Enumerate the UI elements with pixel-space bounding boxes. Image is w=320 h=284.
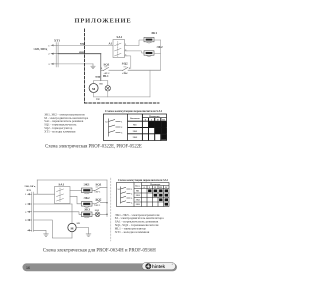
switch diagram in table [109, 119, 121, 137]
enclosure dashed boundary (left vertical) [84, 29, 86, 103]
switch SA1 pin 2 [125, 50, 128, 52]
wire motor drop [71, 204, 73, 223]
svg-text:2: 2 [121, 127, 122, 129]
svg-text:t 95°C: t 95°C [122, 72, 128, 75]
wire EK2 to right bus [154, 52, 161, 54]
closed-contact marks row2 [155, 128, 167, 134]
svg-text:ЭК1: ЭК1 [133, 130, 138, 133]
switch SA1 pin 3 [125, 55, 128, 57]
wire right drop to bottom [149, 70, 151, 97]
svg-text:III: III [159, 187, 162, 189]
svg-text:SA1: SA1 [59, 182, 65, 186]
svg-text:Схема электрическая для PROF-0: Схема электрическая для PROF-0634Н и PRO… [43, 248, 157, 253]
svg-text:М1: М1 [136, 191, 139, 193]
svg-text:Конт.: Конт. [135, 185, 140, 187]
svg-text:t 85°C: t 85°C [95, 190, 101, 193]
svg-text:16: 16 [26, 266, 30, 270]
node junction to top rail [36, 180, 38, 194]
switch diagram pin labels (bottom) [117, 188, 132, 205]
svg-text:3: 3 [125, 54, 126, 56]
svg-text:2: 2 [131, 193, 132, 195]
svg-text:2: 2 [125, 49, 126, 51]
terminal block XT1 bars [56, 43, 58, 68]
table frame (bottom) [117, 183, 170, 207]
terminal 2 arrow (bottom) [28, 203, 32, 205]
wire L phase (kor) [58, 44, 113, 46]
svg-text:ХТ1: ХТ1 [54, 39, 60, 43]
wire PE to ground [58, 63, 93, 65]
svg-text:ХТ1: ХТ1 [27, 189, 32, 192]
svg-text:м: м [71, 225, 74, 230]
svg-text:ХТ1 - колодка клеммная: ХТ1 - колодка клеммная [115, 230, 150, 234]
svg-text:ЭК3: ЭК3 [84, 208, 90, 212]
thermal switch SQ1 [101, 67, 120, 71]
wire N drop to motor node [100, 54, 102, 81]
wire N (blue) [58, 53, 101, 55]
switch diagram pin labels [105, 120, 122, 134]
svg-text:1: 1 [25, 194, 26, 196]
svg-text:А1: А1 [105, 120, 107, 123]
svg-text:IV: IV [165, 187, 168, 189]
svg-text:HL1: HL1 [103, 74, 109, 78]
svg-text:SQ2: SQ2 [96, 197, 102, 201]
table frame [104, 114, 167, 141]
wire SA1 pin2 to EK2 [127, 51, 144, 53]
svg-text:2: 2 [25, 204, 26, 206]
svg-text:III: III [162, 119, 165, 122]
svg-text:Схема электрическая PROF-0322E: Схема электрическая PROF-0322E, PROF-052… [45, 145, 142, 150]
terminal N arrow (bottom) [28, 219, 32, 221]
right bus drop wire [106, 180, 108, 217]
svg-text:син: син [79, 50, 84, 54]
ground symbol (input PE) [91, 64, 95, 69]
footer gray bar [23, 263, 178, 271]
svg-text:м: м [92, 86, 95, 91]
terminal 1 arrow (bottom) [28, 193, 32, 195]
switch diagram in bottom table [121, 187, 131, 204]
top rail wire [37, 179, 107, 181]
svg-text:I: I [149, 187, 150, 189]
right bus wire [160, 40, 162, 70]
wire PE to ground (bottom) [34, 230, 47, 234]
svg-text:2: 2 [48, 54, 49, 56]
svg-text:1: 1 [131, 189, 132, 191]
wire SA1 to EK2 (bottom) [70, 196, 82, 204]
ground symbol (motor) [86, 234, 91, 236]
lamp HL1 [105, 81, 110, 91]
svg-text:hintek: hintek [152, 264, 165, 269]
svg-text:Положение: Положение [150, 184, 160, 186]
svg-text:ЭК2: ЭК2 [157, 45, 163, 49]
motor bottom lead [71, 232, 73, 238]
motor M1 (bottom) [68, 223, 76, 231]
svg-text:SQ1: SQ1 [104, 63, 110, 67]
switch SA1 box (bottom) [55, 187, 71, 204]
wire SA1 to EK1 (bottom) [70, 189, 82, 191]
svg-text:1: 1 [125, 44, 126, 46]
svg-text:ЭК2: ЭК2 [133, 136, 138, 139]
svg-text:SQ1: SQ1 [96, 182, 102, 186]
svg-text:SA1: SA1 [117, 35, 123, 39]
header digits (bottom table) [144, 187, 168, 189]
junction dot SQ2 [106, 202, 107, 203]
switch SA1 box [113, 40, 125, 58]
wire N to bottom [34, 220, 73, 238]
svg-text:1: 1 [48, 45, 49, 47]
SA1 pin digits [125, 44, 126, 56]
svg-text:ЭК1: ЭК1 [84, 182, 90, 186]
lamp HL1 (bottom row3) [92, 212, 107, 217]
svg-text:3: 3 [131, 198, 132, 200]
terminal 1 arrow [51, 44, 58, 46]
thermal switch SQ2 (bottom) [92, 201, 107, 205]
node wire motor-lamp top [94, 80, 108, 82]
svg-text:SQ2: SQ2 [122, 62, 128, 66]
ground symbol (bottom input) [44, 234, 49, 236]
svg-text:II: II [157, 119, 159, 122]
enclosure dashed boundary (bottom schematic) [110, 178, 112, 241]
heater EK1 [144, 37, 154, 43]
enclosure dashed boundary (bottom horizontal) [85, 102, 160, 104]
svg-text:Схема коммутации переключателя: Схема коммутации переключателя SA1 [118, 179, 169, 182]
motor M1 [89, 81, 98, 93]
svg-text:II: II [154, 187, 156, 189]
svg-text:А1: А1 [109, 41, 113, 45]
closed-contact marks row1 [149, 122, 167, 128]
hintek logo icon [145, 263, 151, 269]
svg-text:4: 4 [131, 202, 132, 204]
thermal switch SQ1 (bottom) [92, 187, 107, 191]
heater EK2 [144, 51, 154, 57]
heater EK1 (bottom) [82, 188, 93, 194]
closed-contact marks row1 (bottom) [148, 189, 168, 192]
svg-text:ЭК2: ЭК2 [84, 196, 90, 200]
terminal block bars (bottom) [32, 192, 34, 232]
svg-text:3: 3 [121, 132, 122, 134]
svg-text:ХТ1 - колодка клеммная: ХТ1 - колодка клеммная [44, 129, 76, 133]
svg-text:ЭК1: ЭК1 [136, 195, 140, 197]
row labels (bottom table) [136, 191, 141, 206]
wire SA1 pin3 down to SQ2 [127, 56, 131, 69]
svg-text:Схема коммутации переключателя: Схема коммутации переключателя SA1 [105, 109, 163, 113]
svg-text:I: I [151, 119, 152, 122]
motor ground lead [76, 228, 88, 234]
closed-contact marks row2 (bottom) [154, 194, 168, 197]
svg-text:ЭК1: ЭК1 [151, 31, 157, 35]
hintek logo pill [142, 263, 176, 270]
wire SA1 pin1 to EK1 [127, 40, 144, 46]
svg-text:~220, 50Гц: ~220, 50Гц [33, 47, 47, 51]
svg-text:ЭК2: ЭК2 [136, 200, 140, 202]
switch SA1 internals (bottom) [57, 188, 64, 202]
wire phase1 to SA1 [34, 193, 55, 195]
svg-text:1: 1 [121, 121, 122, 123]
heater EK2 (bottom) [82, 202, 93, 208]
svg-text:А1: А1 [117, 188, 119, 191]
svg-text:ПРИЛОЖЕНИЕ: ПРИЛОЖЕНИЕ [74, 17, 131, 24]
wire phase3 to EK3 [34, 212, 82, 215]
switch SA1 pin 1 [125, 45, 128, 47]
svg-text:t 85°C: t 85°C [95, 204, 101, 207]
wire phase2 under SA1 to motor drop [34, 203, 73, 205]
closed-contact marks row3 [161, 134, 167, 140]
switch SA1 internals [115, 42, 122, 57]
svg-text:3: 3 [25, 212, 26, 214]
svg-text:Контакты: Контакты [130, 118, 140, 120]
terminal 3 arrow (bottom) [28, 211, 32, 213]
svg-text:~380, 50Гц: ~380, 50Гц [24, 185, 36, 188]
closed-contact marks row3 (bottom) [159, 198, 168, 201]
svg-text:кор: кор [96, 75, 101, 79]
terminal PE arrow (bottom) [28, 229, 32, 231]
bottom return wire [94, 91, 150, 97]
heater EK3 (bottom) [82, 212, 93, 218]
header position digits [145, 119, 165, 122]
wire EK1 to right bus [154, 39, 161, 41]
terminal 3 arrow (PE) [51, 63, 58, 65]
junction bus bottom [106, 214, 107, 215]
terminal 2 arrow [51, 53, 58, 55]
closed-contact marks row4 (bottom) [165, 203, 168, 206]
thermostat SQ2 [120, 67, 160, 74]
